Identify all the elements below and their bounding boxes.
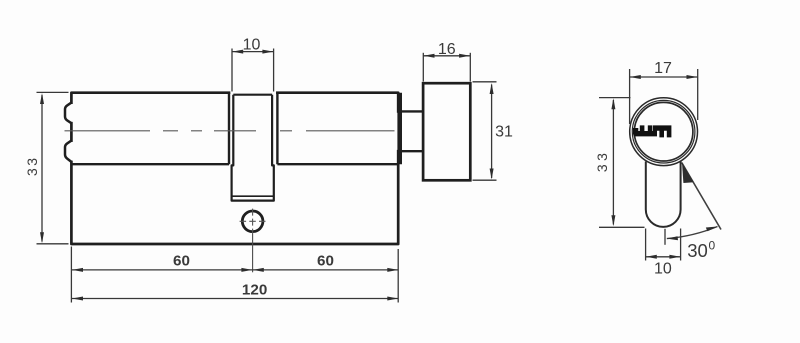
keyhole crosshair [240,220,266,222]
svg-text:120: 120 [242,281,267,298]
svg-text:17: 17 [654,60,672,77]
svg-text:10: 10 [654,261,672,278]
svg-text:16: 16 [438,41,456,58]
profile foot [646,161,681,227]
30-degree arrowhead triangle [682,163,694,184]
svg-text:60: 60 [173,252,190,269]
profile middle ring [632,100,695,163]
dimension 60+60 (bottom) [71,247,398,303]
dimension 10 (cam, top) [232,49,274,92]
dimension 31 (knob height, right) [473,82,497,180]
cylinder body outline (side view) [71,93,398,244]
dimension 10 (right view bottom) [646,229,681,261]
svg-text:60: 60 [317,252,334,269]
keyway silhouette [633,125,671,137]
thumbturn knob [423,83,470,180]
svg-text:31: 31 [495,124,513,141]
cam [232,95,274,201]
foot centerline tick [664,229,666,245]
30-degree arc [667,227,718,239]
front-cap bump lower [65,141,71,162]
profile outer circle [630,98,698,166]
keyhole circle [242,211,263,232]
dimension 120 (bottom) [72,298,399,300]
svg-text:10: 10 [243,37,261,54]
dimension 33 (right view) [599,98,645,228]
svg-text:33: 33 [594,150,610,173]
front-cap bump upper [65,103,71,124]
svg-text:0: 0 [709,239,716,253]
barrel bottom line [71,163,398,165]
dimension 17 (top) [630,69,698,124]
centerline (axis) [65,130,395,132]
dimension 16 (knob, top) [423,53,470,82]
dimension 33 (left) [37,92,69,243]
30-degree tangent line [682,163,721,230]
barrel end face (thick right edge) [397,93,402,165]
svg-text:30: 30 [687,240,708,261]
cam gap edges [229,93,277,165]
profile inner ring [634,102,693,161]
thumbturn neck [398,111,423,151]
svg-text:33: 33 [24,155,40,176]
